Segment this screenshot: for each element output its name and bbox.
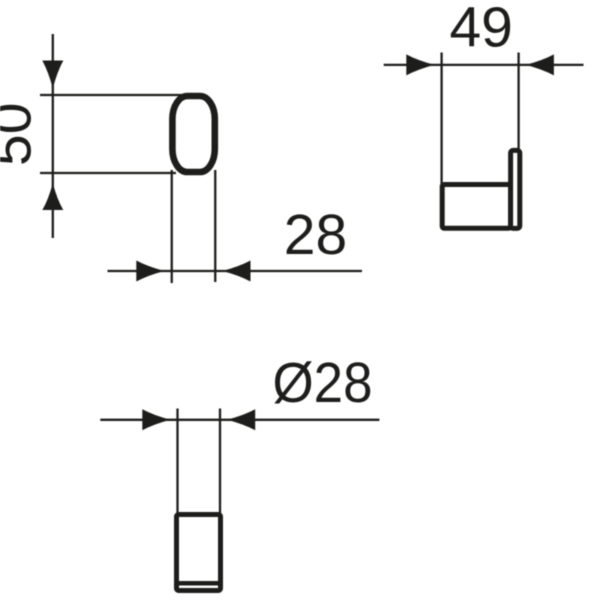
dimension line 28 (top view) (108, 270, 363, 272)
extension line right (Ø28) (219, 409, 221, 515)
dimension line Ø28 (bottom view) (100, 419, 379, 421)
extension line left (49) (440, 53, 442, 187)
svg-text:49: 49 (449, 0, 512, 60)
dimension line 50 (vertical) (52, 34, 54, 238)
front view oval (hook front) (172, 96, 214, 172)
extension line right (49) (517, 53, 519, 153)
arrow up (50 bottom) (42, 183, 63, 210)
extension line left (28 top view) (171, 170, 173, 283)
arrow left (49 right) (526, 54, 554, 75)
arrow right (Ø28 left) (142, 409, 170, 430)
arrow left (Ø28 right) (227, 409, 255, 430)
extension line bottom (50) (40, 172, 176, 174)
dimension line 49 (384, 64, 584, 66)
arrow down (50 top) (42, 61, 63, 89)
svg-text:28: 28 (284, 203, 347, 267)
extension line top (50) (40, 94, 182, 96)
extension line right (28 top view) (214, 170, 216, 282)
extension line left (Ø28) (176, 409, 178, 515)
svg-text:50: 50 (0, 103, 44, 166)
arrow right (28 top view left) (136, 261, 164, 282)
bottom view inner edge line (175, 581, 221, 586)
side view body rectangle (442, 185, 510, 229)
side view back plate bar (511, 150, 520, 228)
arrow right (49 left) (406, 54, 434, 75)
svg-text:Ø28: Ø28 (273, 351, 373, 415)
bottom view rectangle (177, 515, 221, 591)
arrow left (28 top view right) (222, 261, 250, 282)
